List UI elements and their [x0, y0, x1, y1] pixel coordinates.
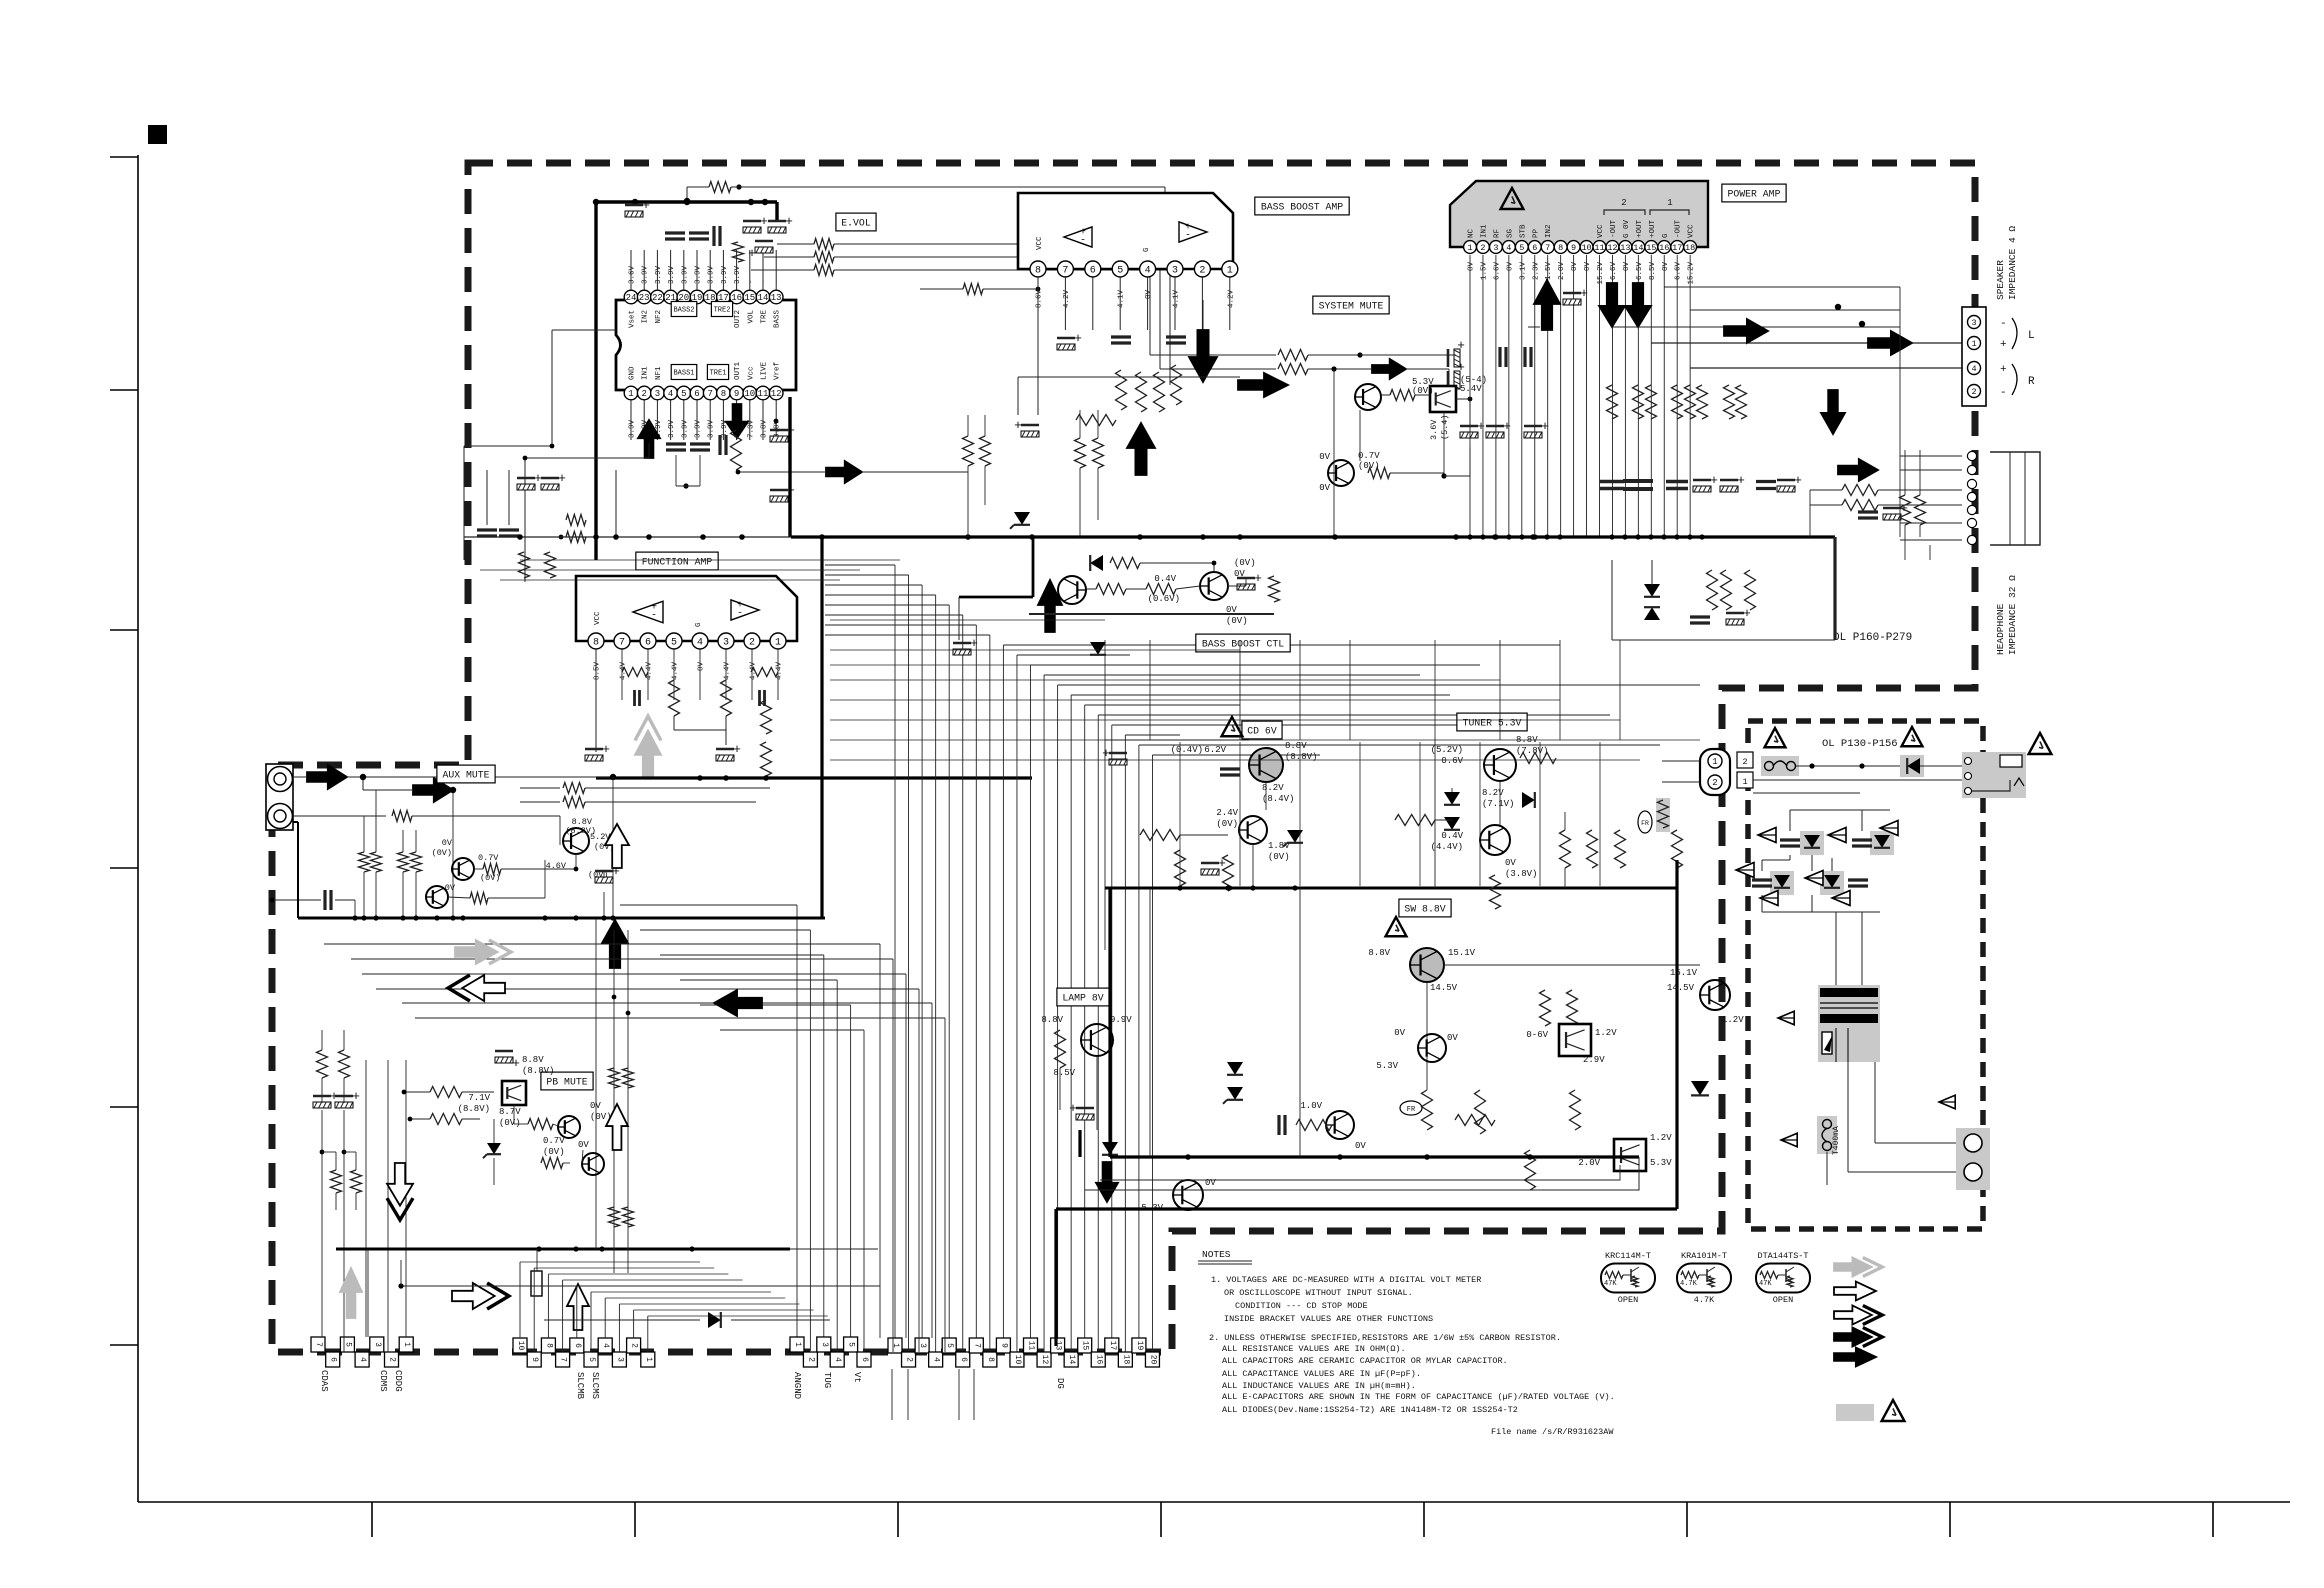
svg-text:VOL: VOL [747, 310, 755, 324]
svg-text:1: 1 [628, 389, 633, 399]
svg-text:Vset: Vset [629, 310, 637, 328]
svg-text:13: 13 [771, 293, 782, 303]
down arrow pin14 [1625, 283, 1651, 327]
tuner transistor [1484, 749, 1516, 781]
svg-text:SPEAKER: SPEAKER [1995, 260, 2006, 300]
svg-text:4.4V: 4.4V [672, 662, 680, 681]
IC4 pins 8-1 [588, 633, 604, 649]
IC2 op-amp B [1179, 222, 1207, 242]
pb white up arrow [606, 1104, 628, 1150]
svg-text:FUNCTION AMP: FUNCTION AMP [642, 557, 713, 568]
svg-text:(0V): (0V) [499, 1118, 521, 1128]
selector small triangles [1758, 828, 1776, 843]
voltage selector network [1800, 831, 1824, 855]
svg-text:2: 2 [1621, 198, 1626, 208]
speaker connector box [1962, 307, 1986, 406]
label CD 6V [1242, 721, 1282, 739]
psu output connector [1956, 1128, 1990, 1190]
svg-text:7: 7 [972, 1343, 981, 1348]
ecap pin7 [1057, 344, 1075, 350]
svg-text:(0.4V): (0.4V) [1171, 745, 1203, 755]
svg-text:Vcc: Vcc [747, 366, 755, 380]
svg-text:1: 1 [1667, 198, 1672, 208]
aux bus dots [352, 915, 357, 920]
main board dashed outline [272, 163, 1975, 1352]
svg-text:6.6V: 6.6V [1493, 262, 1501, 281]
left bus six wires [796, 905, 798, 1337]
svg-text:TUG: TUG [822, 1372, 832, 1388]
psu bottom wires [1826, 1152, 1828, 1185]
label PB MUTE [541, 1072, 593, 1090]
svg-text:11: 11 [1594, 243, 1604, 253]
svg-text:2: 2 [1971, 387, 1976, 397]
svg-text:2: 2 [388, 1357, 397, 1362]
svg-text:2: 2 [905, 1357, 914, 1362]
svg-text:8.5V: 8.5V [1649, 262, 1657, 281]
svg-text:1: 1 [1712, 757, 1717, 767]
svg-text:(5.4): (5.4) [1440, 414, 1450, 440]
ecap pin8 [1563, 299, 1581, 305]
svg-text:6: 6 [329, 1357, 338, 1362]
aux transistor Q2 [426, 886, 448, 908]
svg-text:15: 15 [1081, 1341, 1090, 1351]
headphone wires [1878, 489, 1962, 491]
svg-text:+OUT: +OUT [1636, 219, 1644, 238]
sw resistor [1540, 990, 1551, 1026]
svg-text:-: - [747, 279, 755, 284]
svg-text:+: + [2000, 364, 2007, 376]
svg-text:SG: SG [1506, 228, 1514, 238]
ecap pair left [517, 484, 535, 490]
svg-text:+: + [733, 742, 741, 757]
svg-text:0V: 0V [1506, 262, 1514, 272]
svg-text:4.4V: 4.4V [646, 662, 654, 681]
svg-text:9: 9 [734, 389, 739, 399]
aux wire jack to bus [293, 821, 298, 823]
svg-text:+: + [785, 214, 793, 229]
svg-text:+: + [512, 1056, 520, 1071]
svg-text:6.2V: 6.2V [1204, 745, 1226, 755]
resistor pin5 low [1116, 370, 1127, 410]
down arrow right [1821, 390, 1845, 434]
function amp bottom bus [596, 776, 1032, 779]
thick supply wire above IC1 [594, 202, 597, 560]
thick main bus [464, 536, 791, 538]
sw transistor grey [1410, 948, 1444, 982]
mute base resistor [1390, 390, 1415, 401]
svg-text:1.0V: 1.0V [1300, 1101, 1322, 1111]
svg-text:4.2V: 4.2V [1063, 290, 1071, 309]
svg-text:1: 1 [793, 1342, 802, 1347]
svg-text:3.9V: 3.9V [734, 265, 742, 284]
feedback resistor ic2 [920, 288, 963, 290]
svg-text:5.3V: 5.3V [1650, 1158, 1672, 1168]
svg-text:IMPEDANCE 4 Ω: IMPEDANCE 4 Ω [2007, 226, 2018, 300]
svg-text:4.7K: 4.7K [1680, 1280, 1698, 1288]
svg-text:+: + [602, 742, 610, 757]
mid transistor 0v [1418, 1034, 1446, 1062]
svg-text:11: 11 [1027, 1341, 1036, 1351]
svg-text:(8.4V): (8.4V) [1262, 794, 1294, 804]
label E.VOL [836, 213, 876, 231]
svg-text:4: 4 [932, 1357, 941, 1362]
resistor pin16 top [733, 242, 744, 262]
tuner transistor2 [1480, 825, 1510, 855]
cap stack right [1858, 510, 1878, 513]
svg-text:0V: 0V [1394, 1028, 1405, 1038]
svg-text:RF: RF [1493, 229, 1501, 238]
IC2 pin stubs [1037, 277, 1039, 330]
IC2 op-amp A [1064, 227, 1092, 247]
svg-text:+OUT: +OUT [1649, 219, 1657, 238]
resistor below pin16 [731, 430, 742, 470]
svg-text:4: 4 [1145, 266, 1151, 277]
svg-text:IN1: IN1 [642, 366, 650, 380]
svg-text:OL P130-P156: OL P130-P156 [1822, 738, 1898, 750]
regulator area connection wires [1104, 888, 1106, 950]
svg-text:3: 3 [615, 1357, 624, 1362]
svg-text:+: + [1580, 286, 1588, 301]
svg-text:1: 1 [891, 1343, 900, 1348]
svg-text:0V: 0V [1319, 452, 1330, 462]
aux wires top [293, 776, 307, 778]
svg-text:1.8V: 1.8V [1268, 841, 1290, 851]
fr oval2 [1638, 811, 1652, 833]
svg-text:+: + [1069, 1101, 1077, 1116]
svg-text:8.8V: 8.8V [1041, 1015, 1063, 1025]
svg-text:(8.8V): (8.8V) [522, 1066, 554, 1076]
psu fuse warn [1781, 1133, 1797, 1147]
ctl resistor v [1269, 576, 1280, 602]
out resistors [1607, 385, 1618, 419]
svg-text:G: G [1662, 233, 1670, 238]
svg-text:-: - [651, 611, 657, 622]
svg-text:5: 5 [681, 389, 686, 399]
svg-text:10: 10 [516, 1341, 525, 1351]
svg-text:BASS: BASS [774, 310, 782, 329]
ecap above IC1 [625, 211, 643, 217]
power amp h-wires [1528, 326, 1540, 328]
svg-text:15.1V: 15.1V [1448, 948, 1476, 958]
svg-text:47K: 47K [1759, 1280, 1772, 1288]
pb qbox [502, 1081, 526, 1105]
svg-text:0V: 0V [1662, 262, 1670, 272]
headphone jack pins [1967, 451, 1976, 460]
svg-text:8.8V: 8.8V [1285, 741, 1307, 751]
ctl diode [1090, 555, 1103, 571]
qbox 0.6V [1559, 1024, 1591, 1056]
svg-text:E.VOL: E.VOL [841, 218, 871, 229]
page corner mark [148, 125, 167, 144]
qbox 1.2V [1614, 1139, 1646, 1171]
svg-text:15.1V: 15.1V [1670, 968, 1698, 978]
white right arrows [452, 1283, 509, 1309]
regulator thick vertical left [1108, 888, 1111, 1157]
svg-text:5: 5 [343, 1342, 352, 1347]
IC1 BASS2 box [671, 302, 697, 317]
right block wires [1611, 560, 1613, 640]
svg-text:8.5V: 8.5V [1053, 1068, 1075, 1078]
headphone down wires [1929, 545, 1931, 560]
svg-text:NF1: NF1 [655, 366, 663, 380]
svg-text:15.2V: 15.2V [1597, 262, 1605, 285]
svg-text:2.0V: 2.0V [1558, 262, 1566, 281]
svg-text:2: 2 [1480, 243, 1485, 253]
mute series resistors [1149, 295, 1151, 355]
svg-text:7: 7 [314, 1342, 323, 1347]
svg-text:14.5V: 14.5V [1667, 983, 1695, 993]
ctl resistor mid2 [1146, 584, 1176, 595]
IC1 electronic volume body [616, 300, 796, 390]
svg-text:19: 19 [1135, 1341, 1144, 1351]
headphone resistors [1842, 485, 1878, 496]
svg-text:18: 18 [1685, 243, 1695, 253]
regulator bottom arrow [1096, 1162, 1118, 1202]
svg-text:CDAS: CDAS [319, 1370, 329, 1392]
svg-text:FR: FR [1641, 820, 1649, 827]
white up arrow2 [567, 1284, 589, 1330]
thick bus regulator [1105, 887, 1677, 890]
svg-text:17: 17 [1672, 243, 1682, 253]
svg-text:8.8V: 8.8V [1368, 948, 1390, 958]
rv pair below bass boost [963, 436, 974, 466]
svg-text:7.1V: 7.1V [468, 1093, 490, 1103]
svg-text:SW 8.8V: SW 8.8V [1404, 904, 1445, 915]
down arrow at IC1 pin9 [726, 404, 748, 438]
connector CN3 pins 1-20 [888, 1338, 902, 1353]
svg-text:CONDITION --- CD STOP MODE: CONDITION --- CD STOP MODE [1235, 1301, 1368, 1311]
svg-text:NF2: NF2 [655, 310, 663, 324]
mid transistor 1.0V [1326, 1111, 1354, 1139]
svg-text:6: 6 [959, 1357, 968, 1362]
svg-text:3.9V: 3.9V [708, 419, 716, 438]
svg-text:3: 3 [1172, 266, 1178, 277]
left ecaps [313, 1102, 331, 1108]
svg-text:+: + [1457, 360, 1465, 375]
diode pair right [1644, 584, 1660, 597]
svg-text:11: 11 [758, 389, 769, 399]
tuner resistor v [1490, 875, 1501, 909]
right arrow to spk L+ [1868, 331, 1912, 355]
IC4 right resistors [761, 700, 772, 734]
IC3 warning triangle [1501, 188, 1524, 209]
svg-text:4: 4 [833, 1357, 842, 1362]
svg-text:ALL CAPACITANCE VALUES ARE IN: ALL CAPACITANCE VALUES ARE IN µF(P=pF). [1222, 1369, 1421, 1379]
svg-text:9: 9 [1571, 243, 1576, 253]
lamp diode [1102, 1142, 1118, 1155]
connector CN1 pins 1-7 left [311, 1337, 325, 1352]
svg-text:7: 7 [619, 638, 625, 649]
dots speaker wires [1859, 321, 1865, 327]
svg-text:5.3V: 5.3V [1376, 1061, 1398, 1071]
svg-text:OPEN: OPEN [1618, 1295, 1638, 1305]
svg-text:4.4V: 4.4V [776, 662, 784, 681]
svg-text:0V: 0V [1145, 290, 1153, 300]
IC3 pins 1-18 [1464, 241, 1477, 254]
lamp transistor [1081, 1024, 1113, 1056]
svg-text:4.4V: 4.4V [750, 662, 758, 681]
svg-text:CD 6V: CD 6V [1247, 726, 1277, 737]
svg-text:1: 1 [1742, 777, 1747, 787]
frame bottom border [138, 1501, 2290, 1503]
bus horizontal fan wires [825, 564, 895, 566]
mute coupling resistor 2 [1278, 364, 1308, 375]
black right arrow into bus [1238, 373, 1288, 397]
bass boost ctl label [1196, 634, 1290, 652]
svg-text:0V: 0V [698, 662, 706, 672]
fr oval [1400, 1101, 1422, 1115]
pb resistor to q [528, 1119, 553, 1130]
aux vertical resistors [359, 852, 370, 872]
svg-text:8.2V: 8.2V [1482, 788, 1504, 798]
svg-text:INSIDE BRACKET VALUES ARE OTHE: INSIDE BRACKET VALUES ARE OTHER FUNCTION… [1224, 1314, 1433, 1324]
out caps [1600, 480, 1624, 484]
svg-text:ALL CAPACITORS ARE CERAMIC CAP: ALL CAPACITORS ARE CERAMIC CAPACITOR OR … [1222, 1356, 1508, 1366]
svg-text:18: 18 [1121, 1355, 1130, 1365]
caps row right of headphone [1900, 495, 1911, 525]
svg-text:0V: 0V [1505, 858, 1516, 868]
svg-text:PB MUTE: PB MUTE [546, 1077, 587, 1088]
svg-text:16: 16 [1659, 243, 1669, 253]
IC4 pin stubs [595, 649, 597, 700]
legend warn [1882, 1400, 1905, 1421]
svg-text:+: + [558, 471, 566, 486]
psu wires top [1796, 765, 1900, 767]
svg-text:TRE1: TRE1 [710, 370, 727, 378]
svg-text:(0V): (0V) [432, 848, 452, 858]
tuner res h2 [1395, 815, 1435, 826]
IC1 TRE2 box [711, 302, 732, 317]
svg-text:+: + [352, 1089, 360, 1104]
IC4 resistor 7-6 [622, 668, 648, 677]
grey up arrow left [340, 1268, 362, 1318]
svg-text:3.8V: 3.8V [761, 419, 769, 438]
svg-text:10: 10 [744, 389, 755, 399]
svg-text:3.9V: 3.9V [668, 265, 676, 284]
label AUX MUTE [437, 765, 495, 783]
svg-text:3: 3 [1493, 243, 1498, 253]
svg-text:6: 6 [860, 1357, 869, 1362]
svg-text:1: 1 [775, 638, 781, 649]
wires system mute [1308, 354, 1360, 356]
svg-text:(0.6V): (0.6V) [1148, 594, 1180, 604]
svg-text:12: 12 [1607, 243, 1617, 253]
transistor Q2 0.7V [1328, 460, 1354, 486]
rv pair left-low [519, 552, 530, 578]
svg-text:VCC: VCC [1688, 224, 1696, 238]
svg-text:(0V): (0V) [1234, 558, 1256, 568]
svg-text:6: 6 [1090, 266, 1096, 277]
ecap below IC1 [770, 496, 788, 502]
IC4 vertical resistors [669, 680, 680, 716]
legend arrow grey [1834, 1258, 1882, 1277]
psu left connector wires [1662, 760, 1700, 762]
wires bass to mute [1018, 376, 1240, 378]
svg-text:23: 23 [639, 293, 650, 303]
ctl wires [1086, 588, 1096, 590]
svg-text:ALL E-CAPACITORS ARE SHOWN IN: ALL E-CAPACITORS ARE SHOWN IN THE FORM O… [1222, 1392, 1615, 1402]
svg-text:(0V): (0V) [1268, 852, 1290, 862]
svg-text:14: 14 [1633, 243, 1643, 253]
svg-text:FR: FR [1407, 1106, 1416, 1114]
svg-text:+: + [2000, 339, 2007, 351]
AC pin boxes [1737, 752, 1753, 768]
label SYSTEM MUTE [1313, 296, 1389, 314]
svg-text:5: 5 [945, 1343, 954, 1348]
svg-text:2: 2 [806, 1357, 815, 1362]
pb wires [462, 1091, 494, 1093]
svg-text:3.9V: 3.9V [655, 265, 663, 284]
svg-text:15: 15 [744, 293, 755, 303]
svg-text:1: 1 [1467, 243, 1472, 253]
IC4 lower wires [595, 649, 597, 752]
headphone arrow [1838, 459, 1878, 481]
svg-text:3.9V: 3.9V [721, 265, 729, 284]
svg-text:9: 9 [530, 1357, 539, 1362]
svg-text:AUX MUTE: AUX MUTE [442, 770, 489, 781]
svg-text:IN2: IN2 [1545, 224, 1553, 238]
svg-text:3.9V: 3.9V [642, 265, 650, 284]
aux resistors right [563, 783, 585, 794]
svg-text:12: 12 [771, 389, 782, 399]
svg-text:R: R [2028, 376, 2035, 388]
svg-text:2. UNLESS OTHERWISE SPECIFIED,: 2. UNLESS OTHERWISE SPECIFIED,RESISTORS … [1209, 1333, 1561, 1343]
svg-text:4.1V: 4.1V [1118, 290, 1126, 309]
label SW 8.8V [1399, 899, 1451, 917]
svg-text:0.7V: 0.7V [543, 1136, 565, 1146]
IC4 resistor 2-1 [751, 668, 778, 677]
left wires [321, 1030, 323, 1050]
aux transistor Q3 [563, 828, 589, 854]
svg-text:3.9V: 3.9V [695, 419, 703, 438]
svg-text:BASS BOOST CTL: BASS BOOST CTL [1202, 639, 1284, 650]
regulator v resistors low [1422, 1090, 1433, 1130]
ctl transistor 2 [1200, 572, 1228, 600]
IC4 function amp body [576, 576, 797, 641]
svg-text:2: 2 [1742, 757, 1747, 767]
nested elbows under regulator [1085, 1157, 1639, 1190]
svg-text:1.2V: 1.2V [1650, 1133, 1672, 1143]
svg-text:15.2V: 15.2V [1688, 262, 1696, 285]
svg-text:10: 10 [1013, 1355, 1022, 1365]
lamp ecap [1076, 1114, 1094, 1120]
svg-text:4: 4 [697, 638, 703, 649]
svg-text:(0V): (0V) [1216, 819, 1238, 829]
tuner wires [1435, 819, 1452, 821]
svg-text:3.9V: 3.9V [668, 419, 676, 438]
svg-text:+: + [1014, 418, 1022, 433]
aux arrow in [307, 765, 347, 789]
ecap at arrow [1021, 431, 1039, 437]
svg-text:1: 1 [1971, 339, 1976, 349]
left resistor column [317, 1050, 328, 1078]
svg-text:22: 22 [652, 293, 663, 303]
svg-text:+: + [1074, 331, 1082, 346]
mid res [1296, 1120, 1332, 1131]
svg-text:3.9V: 3.9V [708, 265, 716, 284]
label BASS BOOST AMP [1255, 197, 1349, 215]
svg-text:4.4V: 4.4V [724, 662, 732, 681]
resistor trio right [1707, 570, 1718, 610]
sw wires [1444, 964, 1700, 966]
svg-text:4.1V: 4.1V [1173, 290, 1181, 309]
psu warning triangles [1765, 728, 1786, 747]
svg-text:10: 10 [1581, 243, 1591, 253]
mute right arrow [1372, 359, 1406, 379]
svg-text:7: 7 [1545, 243, 1550, 253]
svg-text:8.2V: 8.2V [1262, 783, 1284, 793]
svg-text:KRC114M-T: KRC114M-T [1605, 1251, 1651, 1261]
